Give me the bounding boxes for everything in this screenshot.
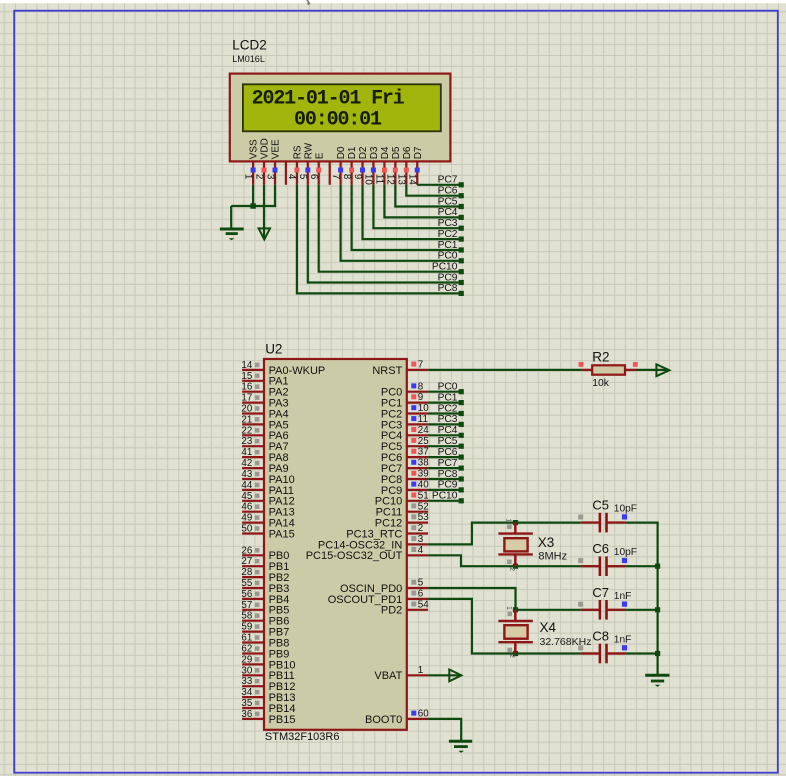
U2 pin 42 (PA9) xyxy=(241,458,288,475)
svg-text:8: 8 xyxy=(341,174,352,180)
U2 pin 56 (PB4) xyxy=(241,589,289,606)
C7 lead left xyxy=(581,609,599,611)
svg-text:26: 26 xyxy=(241,545,252,556)
C6 reference label xyxy=(592,541,609,556)
svg-text:D2: D2 xyxy=(358,146,369,159)
LCD2 pin 9 (D2) xyxy=(352,146,369,185)
C5 lead left xyxy=(581,521,599,523)
X3 value 8MHz xyxy=(538,551,567,563)
svg-text:12: 12 xyxy=(385,174,396,185)
svg-text:32.768KHz: 32.768KHz xyxy=(540,636,592,648)
wire U2 PC3 to terminal xyxy=(428,423,459,425)
U2 pin 22 (PA6) xyxy=(241,425,288,442)
svg-text:PC9: PC9 xyxy=(438,480,458,491)
U2 pin 51 (PC10) xyxy=(375,490,429,507)
svg-text:LM016L: LM016L xyxy=(232,54,265,64)
svg-text:51: 51 xyxy=(418,490,429,501)
wire LCD2 pin 6 to terminal PC10 xyxy=(319,185,459,272)
crystal X3 xyxy=(498,518,532,571)
U2 pin 2 (PC13_RTC) xyxy=(346,523,428,540)
svg-text:44: 44 xyxy=(241,480,252,491)
U2 pin 27 (PB1) xyxy=(241,556,289,573)
ground symbol GND (LCD) xyxy=(220,229,244,240)
wire U2 BOOT0 to ground xyxy=(428,719,461,740)
svg-text:VSS: VSS xyxy=(249,139,260,159)
svg-text:PC8: PC8 xyxy=(438,469,458,480)
U2 pin 54 (PD2) xyxy=(381,599,429,616)
svg-text:60: 60 xyxy=(418,709,429,720)
capacitor C6 xyxy=(578,556,627,576)
U2 pin 28 (PB2) xyxy=(241,567,289,584)
svg-text:7: 7 xyxy=(418,360,423,371)
U2 pin 34 (PB13) xyxy=(241,687,295,704)
wire U2 VBAT to terminal arrow xyxy=(428,674,461,676)
svg-text:PC4: PC4 xyxy=(438,207,458,218)
junction X4 pin1 xyxy=(513,607,518,612)
svg-text:R2: R2 xyxy=(592,349,609,364)
C7 lead right / wire to rail xyxy=(608,609,658,611)
svg-text:14: 14 xyxy=(407,174,418,185)
svg-text:10pF: 10pF xyxy=(614,504,637,515)
svg-text:55: 55 xyxy=(241,578,252,589)
U2 pin 43 (PA10) xyxy=(241,469,294,486)
U2 pin 53 (PC12) xyxy=(375,512,429,529)
terminal PC3 xyxy=(438,218,464,231)
terminal arrow (VBAT) xyxy=(449,670,461,682)
U2 pin 46 (PA13) xyxy=(241,502,294,519)
U2 pin 5 (OSCIN_PD0) xyxy=(340,578,428,595)
wire LCD2 pin 11 to terminal PC4 xyxy=(384,185,459,218)
wire U2 OSCOUT_PD1 down to X4 pin 2 net xyxy=(428,599,581,654)
microcontroller U2 reference label xyxy=(265,342,282,357)
wire LCD2 pin 2 (VDD) down to power terminal xyxy=(263,185,265,239)
svg-text:2021-01-01 Fri: 2021-01-01 Fri xyxy=(252,88,405,111)
U2 pin 33 (PB12) xyxy=(241,676,295,693)
svg-text:00:00:01: 00:00:01 xyxy=(294,108,382,131)
svg-text:52: 52 xyxy=(418,501,429,512)
svg-text:13: 13 xyxy=(396,174,407,185)
wire U2 PC5 to terminal xyxy=(428,445,459,447)
junction X3 pin2 xyxy=(513,564,518,569)
svg-text:36: 36 xyxy=(241,709,252,720)
C5 value 10pF xyxy=(614,504,637,515)
U2 pin 9 (PC1) xyxy=(381,392,428,409)
svg-text:D4: D4 xyxy=(380,146,391,159)
U2 pin 26 (PB0) xyxy=(241,545,289,562)
wire U2 PC6 to terminal xyxy=(428,456,459,458)
capacitor C5 xyxy=(578,513,627,533)
svg-text:E: E xyxy=(314,152,325,159)
wire LCD2 pin 5 to terminal PC9 xyxy=(308,185,459,283)
svg-text:3: 3 xyxy=(264,174,275,180)
svg-text:5: 5 xyxy=(418,578,424,589)
LCD2 pin 2 (VDD) xyxy=(253,138,270,185)
svg-text:C7: C7 xyxy=(592,585,609,600)
C6 lead right / wire to rail xyxy=(608,565,658,567)
LCD2 pin 6 (E) xyxy=(308,152,325,185)
LCD2 screen xyxy=(243,84,441,131)
svg-text:50: 50 xyxy=(241,524,252,535)
LCD2 part number LM016L xyxy=(232,54,265,64)
R2 value 10k xyxy=(592,378,609,389)
LCD2 pin 10 (D3) xyxy=(363,146,380,185)
U2 pin 58 (PB6) xyxy=(241,611,289,628)
svg-text:11: 11 xyxy=(418,414,428,425)
U2 pin 60 (BOOT0) xyxy=(365,709,429,726)
U2 pin 4 (PC15-OSC32_OUT) xyxy=(306,545,428,562)
U2 pin 37 (PC6) xyxy=(381,447,429,464)
terminal PC2 xyxy=(438,229,464,242)
svg-text:PC1: PC1 xyxy=(438,392,458,403)
U2 pin 35 (PB14) xyxy=(241,698,295,715)
terminal PC10 (U2 side) xyxy=(432,491,464,504)
LCD2 pin 14 (D7) xyxy=(407,146,424,185)
terminal PC6 xyxy=(438,186,464,199)
terminal PC5 xyxy=(438,196,464,209)
ground symbol (BOOT0) xyxy=(449,741,472,753)
svg-text:LCD2: LCD2 xyxy=(232,38,267,53)
svg-text:PC8: PC8 xyxy=(438,283,458,294)
svg-text:D7: D7 xyxy=(413,146,424,159)
terminal PC4 xyxy=(438,207,464,220)
U2 pin 25 (PC5) xyxy=(381,436,429,453)
U2 pin 8 (PC0) xyxy=(381,381,428,398)
capacitor C8 xyxy=(578,644,627,664)
wire right rail down to ground xyxy=(656,523,658,675)
C8 reference label xyxy=(592,629,609,644)
U2 pin 57 (PB5) xyxy=(241,600,289,617)
LCD2 unused stub (slot 7) xyxy=(329,161,331,184)
svg-text:PC0: PC0 xyxy=(438,382,458,393)
junction X4 pin2 xyxy=(513,651,518,656)
svg-text:39: 39 xyxy=(418,469,429,480)
LCD2 pin 1 (VSS) xyxy=(242,139,259,185)
U2 pin 59 (PB7) xyxy=(241,622,289,639)
X4 value 32.768KHz xyxy=(540,636,592,648)
junction X3 pin1 xyxy=(513,520,518,525)
U2 pin 10 (PC2) xyxy=(381,403,429,420)
terminal PC4 (U2 side) xyxy=(438,425,464,438)
svg-text:2: 2 xyxy=(253,174,264,179)
wire U2 PC4 to terminal xyxy=(428,434,459,436)
svg-text:17: 17 xyxy=(241,393,252,404)
svg-text:PC6: PC6 xyxy=(438,186,458,197)
junction rail C8 xyxy=(655,651,660,656)
svg-text:45: 45 xyxy=(241,491,252,502)
svg-text:35: 35 xyxy=(241,698,252,709)
svg-text:9: 9 xyxy=(418,392,423,403)
U2 body xyxy=(264,359,407,730)
U2 pin 16 (PA2) xyxy=(241,382,288,399)
LCD2 pin 5 (RW) xyxy=(297,142,314,185)
C6 value 10pF xyxy=(614,547,637,558)
svg-text:STM32F103R6: STM32F103R6 xyxy=(265,731,340,743)
crystal X4 xyxy=(498,606,532,658)
svg-text:27: 27 xyxy=(241,556,252,567)
svg-text:PD2: PD2 xyxy=(381,605,402,617)
LCD2 screen text line 1 xyxy=(252,88,405,111)
svg-text:PC2: PC2 xyxy=(438,403,458,414)
U2 pin 41 (PA8) xyxy=(241,447,288,464)
svg-text:D6: D6 xyxy=(402,146,413,159)
svg-text:VDD: VDD xyxy=(260,138,271,159)
wire R2 to terminal arrow xyxy=(637,369,669,371)
U2 pin 61 (PB8) xyxy=(241,633,289,650)
U2 pin 45 (PA12) xyxy=(241,491,294,508)
svg-text:D3: D3 xyxy=(369,146,380,159)
LCD display LCD2 reference label xyxy=(232,38,267,53)
terminal PC1 xyxy=(438,240,464,253)
C7 reference label xyxy=(592,585,609,600)
power-down arrow terminal (VDD) xyxy=(259,228,270,239)
U2 pin 49 (PA14) xyxy=(241,513,294,530)
U2 part value STM32F103R6 xyxy=(265,731,340,743)
svg-text:14: 14 xyxy=(241,360,252,371)
svg-text:1: 1 xyxy=(505,518,514,522)
svg-text:1: 1 xyxy=(242,174,253,179)
U2 pin 20 (PA4) xyxy=(241,404,288,421)
svg-text:6: 6 xyxy=(308,174,319,180)
svg-text:C8: C8 xyxy=(592,629,609,644)
svg-text:59: 59 xyxy=(241,622,252,633)
svg-text:1: 1 xyxy=(505,606,514,610)
LCD2 pin 11 (D4) xyxy=(374,146,391,185)
wire LCD2 pin 9 to terminal PC2 xyxy=(363,185,459,239)
svg-text:62: 62 xyxy=(241,644,252,655)
wire U2 PC10 to terminal xyxy=(428,500,459,502)
svg-text:PC1: PC1 xyxy=(438,240,458,251)
C7 value 1nF xyxy=(614,591,632,602)
X4 reference label xyxy=(540,620,557,635)
svg-text:20: 20 xyxy=(241,404,252,415)
svg-text:2: 2 xyxy=(508,654,517,658)
svg-text:PC3: PC3 xyxy=(438,218,458,229)
svg-text:6: 6 xyxy=(418,589,424,600)
U2 pin 3 (PC14-OSC32_IN) xyxy=(318,534,428,551)
svg-text:54: 54 xyxy=(418,599,429,610)
svg-text:C5: C5 xyxy=(592,498,609,513)
wire X4 pin1 row to C7 xyxy=(516,609,581,611)
svg-text:23: 23 xyxy=(241,436,252,447)
terminal PC0 (U2 side) xyxy=(438,382,464,395)
terminal PC3 (U2 side) xyxy=(438,414,464,427)
svg-text:VEE: VEE xyxy=(271,139,282,159)
svg-text:16: 16 xyxy=(241,382,252,393)
svg-text:43: 43 xyxy=(241,469,252,480)
C6 lead left xyxy=(581,565,599,567)
wire LCD2 pin 8 to terminal PC1 xyxy=(352,185,459,250)
svg-text:49: 49 xyxy=(241,513,252,524)
svg-text:34: 34 xyxy=(241,687,252,698)
wire LCD2 pin 3 (VEE) down xyxy=(274,185,276,207)
U2 pin 39 (PC8) xyxy=(381,469,429,486)
svg-text:BOOT0: BOOT0 xyxy=(365,714,402,726)
svg-text:22: 22 xyxy=(241,425,252,436)
svg-text:30: 30 xyxy=(241,665,252,676)
svg-text:VBAT: VBAT xyxy=(374,670,402,682)
mouse cursor xyxy=(307,0,310,5)
wire LCD2 pin 10 to terminal PC3 xyxy=(373,185,459,228)
wire ground net horizontal xyxy=(231,205,276,207)
wire U2 PC15-OSC32_OUT to X3 pin 2 net xyxy=(428,555,581,566)
C5 reference label xyxy=(592,498,609,513)
svg-text:PC7: PC7 xyxy=(438,458,458,469)
junction rail C7 xyxy=(655,607,660,612)
wire U2 PC1 to terminal xyxy=(428,402,459,404)
svg-text:PC15-OSC32_OUT: PC15-OSC32_OUT xyxy=(306,550,403,562)
U2 pin 23 (PA7) xyxy=(241,436,288,453)
C8 lead right / wire to rail xyxy=(608,652,658,654)
LCD2 pin 13 (D6) xyxy=(396,146,413,185)
svg-text:PC9: PC9 xyxy=(438,272,458,283)
U2 pin 29 (PB10) xyxy=(241,654,295,671)
U2 pin 17 (PA3) xyxy=(241,393,288,410)
wire LCD2 pin 4 to terminal PC8 xyxy=(297,185,459,294)
terminal PC10 xyxy=(432,262,464,275)
wire U2 PC9 to terminal xyxy=(428,489,459,491)
wire LCD2 pin 1 (VSS) down xyxy=(252,185,254,206)
svg-text:8: 8 xyxy=(418,381,424,392)
LCD2 body xyxy=(230,74,451,162)
terminal PC6 (U2 side) xyxy=(438,447,464,460)
svg-text:RW: RW xyxy=(303,142,314,159)
svg-text:57: 57 xyxy=(241,600,252,611)
svg-text:15: 15 xyxy=(241,371,252,382)
svg-text:1nF: 1nF xyxy=(614,591,632,602)
U2 pin 55 (PB3) xyxy=(241,578,289,595)
U2 pin 40 (PC9) xyxy=(381,480,429,497)
wire U2 PC0 to terminal xyxy=(428,391,459,393)
svg-text:21: 21 xyxy=(241,414,252,425)
svg-text:PC0: PC0 xyxy=(438,251,458,262)
junction VSS/ground net xyxy=(250,203,256,209)
LCD2 pin 8 (D1) xyxy=(341,146,358,185)
wire U2 PC8 to terminal xyxy=(428,478,459,480)
svg-text:2: 2 xyxy=(508,567,517,571)
terminal PC2 (U2 side) xyxy=(438,403,464,416)
U2 pin 21 (PA5) xyxy=(241,414,288,431)
svg-text:7: 7 xyxy=(330,174,341,179)
svg-text:25: 25 xyxy=(418,436,429,447)
svg-text:2: 2 xyxy=(418,523,423,534)
svg-text:4: 4 xyxy=(418,545,424,556)
svg-text:X3: X3 xyxy=(538,535,555,550)
terminal PC8 (U2 side) xyxy=(438,469,464,482)
U2 pin 7 (NRST) xyxy=(372,360,428,377)
svg-text:38: 38 xyxy=(418,458,429,469)
svg-text:37: 37 xyxy=(418,447,429,458)
svg-text:4: 4 xyxy=(286,174,297,180)
terminal PC5 (U2 side) xyxy=(438,436,464,449)
ground symbol (oscillator rail) xyxy=(645,675,669,687)
wire LCD2 pin 7 to terminal PC0 xyxy=(341,185,459,261)
svg-text:NRST: NRST xyxy=(372,365,402,377)
U2 pin 36 (PB15) xyxy=(241,709,295,726)
svg-text:1nF: 1nF xyxy=(614,635,632,646)
svg-text:41: 41 xyxy=(241,447,252,458)
U2 pin 38 (PC7) xyxy=(381,458,429,475)
svg-text:PC3: PC3 xyxy=(438,414,458,425)
resistor R2 xyxy=(579,362,638,375)
U2 pin 14 (PA0-WKUP) xyxy=(241,360,325,377)
svg-text:PA15: PA15 xyxy=(269,528,295,540)
wire U2 NRST to R2 xyxy=(428,369,581,371)
U2 pin 24 (PC4) xyxy=(381,425,429,442)
junction rail C6 xyxy=(655,564,660,569)
wire U2 PC14-OSC32_IN to X3 pin 1 net xyxy=(428,523,581,545)
capacitor C7 xyxy=(578,600,627,620)
terminal PC9 (U2 side) xyxy=(438,480,464,493)
terminal PC1 (U2 side) xyxy=(438,392,464,405)
svg-text:8MHz: 8MHz xyxy=(538,551,567,563)
svg-text:3: 3 xyxy=(418,534,424,545)
terminal arrow (NRST net) xyxy=(656,364,669,376)
LCD2 pin 3 (VEE) xyxy=(264,139,281,185)
U2 pin 6 (OSCOUT_PD1) xyxy=(328,589,428,606)
terminal PC7 (U2 side) xyxy=(438,458,464,471)
svg-text:PB15: PB15 xyxy=(269,714,296,726)
LCD2 pin 4 (RS) xyxy=(286,145,303,185)
svg-text:11: 11 xyxy=(374,174,385,184)
terminal PC0 xyxy=(438,251,464,264)
wire ground net down to ground symbol xyxy=(230,206,232,229)
svg-text:10k: 10k xyxy=(592,378,609,389)
svg-text:D5: D5 xyxy=(391,146,402,159)
svg-text:10pF: 10pF xyxy=(614,547,637,558)
svg-text:1: 1 xyxy=(418,665,423,676)
svg-text:58: 58 xyxy=(241,611,252,622)
svg-text:D1: D1 xyxy=(347,146,358,159)
wire U2 PC7 to terminal xyxy=(428,467,459,469)
svg-text:33: 33 xyxy=(241,676,252,687)
U2 pin 11 (PC3) xyxy=(381,414,428,431)
svg-text:U2: U2 xyxy=(265,342,282,357)
LCD2 pin 12 (D5) xyxy=(385,146,402,185)
svg-text:5: 5 xyxy=(297,174,308,180)
svg-text:10: 10 xyxy=(418,403,429,414)
U2 pin 1 (VBAT) xyxy=(374,665,428,682)
svg-text:29: 29 xyxy=(241,654,252,665)
R2 reference label xyxy=(592,349,609,364)
svg-text:24: 24 xyxy=(418,425,429,436)
LCD2 pin 7 (D0) xyxy=(330,146,347,185)
svg-text:28: 28 xyxy=(241,567,252,578)
svg-text:PC2: PC2 xyxy=(438,229,458,240)
svg-text:42: 42 xyxy=(241,458,252,469)
terminal PC7 xyxy=(438,175,464,188)
terminal PC9 xyxy=(438,272,464,285)
wire LCD2 pin 13 to terminal PC6 xyxy=(406,185,459,196)
svg-text:PC5: PC5 xyxy=(438,196,458,207)
terminal PC8 xyxy=(438,283,464,296)
svg-text:D0: D0 xyxy=(336,146,347,159)
svg-text:61: 61 xyxy=(241,633,252,644)
svg-text:53: 53 xyxy=(418,512,429,523)
U2 pin 15 (PA1) xyxy=(241,371,288,388)
svg-text:PC4: PC4 xyxy=(438,425,458,436)
wire U2 OSCIN_PD0 down to X4 pin 1 net xyxy=(428,588,515,610)
svg-text:X4: X4 xyxy=(540,620,557,635)
svg-text:40: 40 xyxy=(418,480,429,491)
wire LCD2 pin 12 to terminal PC5 xyxy=(395,185,459,207)
svg-text:PC10: PC10 xyxy=(432,262,458,273)
wire LCD2 pin 14 to terminal PC7 xyxy=(417,184,459,186)
svg-text:10: 10 xyxy=(363,174,374,185)
U2 pin 62 (PB9) xyxy=(241,644,289,661)
svg-text:PC5: PC5 xyxy=(438,436,458,447)
U2 pin 30 (PB11) xyxy=(241,665,294,682)
LCD2 screen text line 2 xyxy=(294,108,382,131)
